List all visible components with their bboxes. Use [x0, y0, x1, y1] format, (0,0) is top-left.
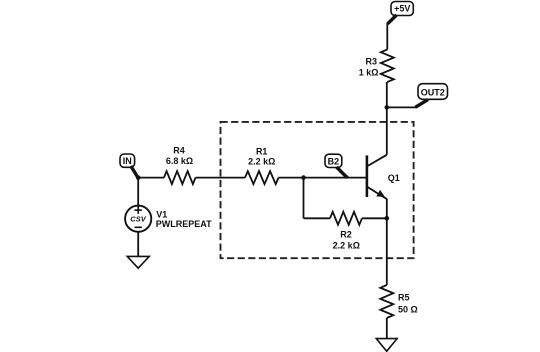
svg-text:B2: B2	[328, 156, 340, 166]
svg-text:1 kΩ: 1 kΩ	[359, 67, 379, 77]
wire +5V to R3	[386, 23, 388, 50]
svg-text:OUT2: OUT2	[421, 87, 445, 97]
net flag +5V	[388, 2, 414, 24]
svg-text:50 Ω: 50 Ω	[398, 304, 418, 314]
wire OUT2 node to Q1 collector	[386, 107, 388, 154]
resistor R1	[245, 146, 279, 184]
wire R2 to emitter node	[362, 217, 387, 219]
svg-text:6.8 kΩ: 6.8 kΩ	[166, 156, 193, 166]
net flag B2	[325, 154, 349, 179]
svg-text:2.2 kΩ: 2.2 kΩ	[248, 156, 275, 166]
wire emitter node to R5	[386, 218, 388, 285]
net flag OUT2	[387, 84, 448, 108]
node OUT2 junction	[385, 105, 390, 110]
svg-text:+5V: +5V	[394, 3, 410, 13]
node A (input junction)	[136, 175, 141, 180]
svg-text:R4: R4	[173, 146, 185, 156]
resistor R3	[359, 50, 394, 83]
svg-text:R3: R3	[365, 56, 377, 66]
resistor R4	[164, 146, 196, 185]
wire node A to R4	[138, 177, 164, 179]
wire R5 to ground	[386, 318, 388, 339]
subcircuit dashed box	[221, 122, 414, 258]
svg-text:Q1: Q1	[388, 173, 400, 183]
svg-text:PWLREPEAT: PWLREPEAT	[156, 219, 212, 229]
node emitter junction	[385, 216, 390, 221]
node base junction	[301, 175, 306, 180]
transistor Q1	[367, 155, 400, 199]
wire R4 to R1	[196, 177, 246, 179]
svg-text:R2: R2	[340, 230, 352, 240]
wire base node down	[303, 178, 305, 219]
resistor R5	[380, 285, 417, 318]
wire R1 to base node	[279, 177, 304, 179]
svg-text:CSV: CSV	[130, 215, 146, 224]
wire to R2	[304, 217, 331, 219]
svg-text:2.2 kΩ: 2.2 kΩ	[333, 240, 360, 250]
svg-text:R1: R1	[256, 146, 268, 156]
wire node A to V1	[137, 178, 139, 206]
svg-text:R5: R5	[398, 293, 410, 303]
ground (left)	[127, 256, 149, 268]
voltage source V1	[125, 206, 212, 232]
wire base node to Q1 base	[304, 177, 367, 179]
net flag IN	[120, 154, 138, 177]
wire Q1 emitter to node	[386, 199, 388, 219]
wire R3 to OUT2 node	[386, 82, 388, 107]
wire V1 to ground	[137, 232, 139, 257]
resistor R2	[330, 212, 362, 251]
svg-text:IN: IN	[123, 156, 132, 166]
ground (right)	[376, 339, 397, 352]
